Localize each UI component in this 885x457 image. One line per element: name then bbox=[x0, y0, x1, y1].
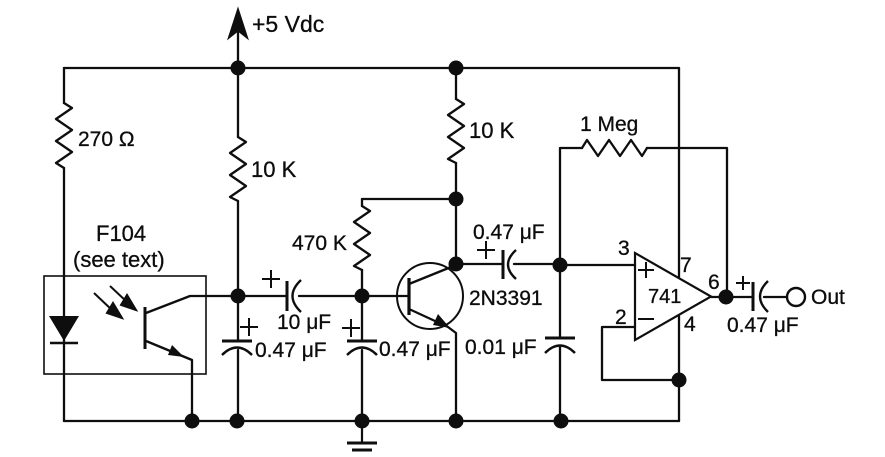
svg-text:270 Ω: 270 Ω bbox=[78, 128, 135, 151]
svg-text:3: 3 bbox=[618, 237, 630, 260]
wire 0.01uF top lead bbox=[559, 265, 561, 338]
resistor R 1Meg bbox=[582, 140, 647, 156]
wire pin6 output bbox=[711, 296, 753, 298]
svg-text:0.01 μF: 0.01 μF bbox=[465, 336, 537, 359]
node dot collector junction bbox=[449, 257, 464, 272]
op-amp plus input symbol bbox=[638, 262, 654, 278]
node dot cap1 rail bbox=[230, 414, 245, 429]
wire node1 to 10uF cap bbox=[238, 295, 287, 297]
capacitor C1 10uF plates bbox=[287, 280, 301, 312]
output terminal circle bbox=[787, 288, 805, 306]
op-amp U1 741 triangle bbox=[635, 253, 711, 340]
svg-text:+5 Vdc: +5 Vdc bbox=[252, 11, 324, 37]
wire right vertical pin4 to ground rail bbox=[678, 316, 680, 421]
svg-text:0.47 μF: 0.47 μF bbox=[727, 314, 799, 337]
wire left rail lower bbox=[63, 168, 65, 421]
svg-text:F104: F104 bbox=[96, 221, 146, 246]
wire 2N3391 collector bbox=[409, 265, 456, 284]
wire 10K-right bottom lead bbox=[455, 163, 457, 264]
wire +5Vdc stem bbox=[237, 30, 239, 68]
svg-text:10 K: 10 K bbox=[469, 118, 515, 143]
svg-text:7: 7 bbox=[680, 254, 692, 277]
capacitor C4 0.47uF coupling plates bbox=[503, 250, 516, 279]
F104 box bbox=[44, 276, 206, 374]
wire 0.01uF bottom lead bbox=[559, 347, 561, 421]
svg-text:0.47 μF: 0.47 μF bbox=[473, 221, 545, 244]
svg-text:10 K: 10 K bbox=[251, 157, 297, 182]
capacitor C3 0.47uF (middle shunt) plates bbox=[347, 341, 377, 355]
wire F104 emitter to bottom rail bbox=[146, 341, 192, 421]
wire node3 to pin3 bbox=[560, 264, 635, 266]
node dot node1 bbox=[231, 289, 246, 304]
plus sign C1 bbox=[262, 270, 280, 288]
wire cap2 bottom lead bbox=[361, 350, 363, 421]
wire 1Meg left leg bbox=[560, 148, 582, 265]
wire collector node to coupling cap bbox=[456, 263, 503, 265]
node dot emitter 2N3391 rail bbox=[449, 414, 464, 429]
node dot 0.01uF rail bbox=[554, 414, 569, 429]
wire 10K-left top lead bbox=[237, 68, 239, 137]
node dot output pin6 bbox=[719, 290, 734, 305]
wire cap1 top lead bbox=[237, 296, 239, 341]
capacitor C5 0.01uF plates bbox=[545, 338, 575, 353]
capacitor C2 0.47uF (left shunt) plates bbox=[222, 341, 252, 355]
+5Vdc arrow head bbox=[228, 8, 248, 39]
svg-text:2N3391: 2N3391 bbox=[469, 287, 543, 310]
wire pin2 loop bbox=[602, 327, 679, 380]
wire bottom rail bbox=[64, 420, 679, 422]
svg-text:1 Meg: 1 Meg bbox=[580, 113, 638, 136]
wire 10K-left bottom lead bbox=[237, 201, 239, 296]
svg-text:470 K: 470 K bbox=[292, 232, 347, 255]
node dot node3 pin3 bbox=[553, 258, 568, 273]
wire right vertical pin7 supply bbox=[678, 68, 680, 277]
resistor R 10K right bbox=[448, 99, 464, 163]
svg-text:10 μF: 10 μF bbox=[277, 311, 331, 334]
node dot +5V tap bbox=[231, 61, 246, 76]
wire 10K-right top lead bbox=[455, 68, 457, 99]
plus sign C4 bbox=[477, 241, 495, 259]
node dot node2 base bbox=[355, 289, 370, 304]
wire 470K top to collector line bbox=[362, 198, 456, 200]
svg-text:6: 6 bbox=[708, 271, 720, 294]
wire left rail upper bbox=[63, 68, 65, 103]
wire node2 to transistor base bbox=[362, 295, 409, 297]
plus sign C6 bbox=[736, 276, 750, 290]
wire 470K top lead bbox=[361, 199, 363, 206]
node dot emitter F104 rail bbox=[185, 414, 200, 429]
phototransistor emitter arrowhead F104 bbox=[168, 345, 184, 357]
node dot 10K-right top bbox=[449, 61, 464, 76]
wire cap2 top lead bbox=[361, 296, 363, 341]
wire 10uF cap to node2 bbox=[299, 295, 362, 297]
plus sign C2 bbox=[240, 318, 258, 336]
wire output cap to terminal bbox=[764, 296, 787, 298]
wire 2N3391 emitter to bottom rail bbox=[409, 309, 456, 421]
resistor R 10K left bbox=[230, 137, 246, 201]
wire 470K bottom lead bbox=[361, 270, 363, 296]
phototransistor base bar F104 bbox=[144, 307, 147, 349]
node dot pin2-pin4 junction bbox=[672, 373, 687, 388]
op-amp minus input symbol bbox=[638, 318, 654, 320]
capacitor C6 0.47uF output plates bbox=[753, 281, 768, 312]
svg-text:741: 741 bbox=[648, 286, 681, 308]
transistor Q1 2N3391 circle bbox=[397, 263, 463, 329]
transistor Q1 emitter arrowhead bbox=[433, 314, 450, 328]
svg-text:0.47 μF: 0.47 μF bbox=[255, 339, 327, 362]
wire top rail bbox=[64, 67, 679, 69]
svg-text:2: 2 bbox=[615, 306, 627, 329]
wire coupling cap to node3 bbox=[514, 263, 560, 265]
wire F104 collector to node1 bbox=[146, 296, 238, 313]
svg-text:0.47 μF: 0.47 μF bbox=[379, 338, 451, 361]
ground symbol bbox=[347, 421, 377, 450]
resistor R 270 ohm bbox=[56, 103, 72, 168]
svg-text:Out: Out bbox=[811, 286, 845, 309]
node dot ground rail bbox=[355, 414, 370, 429]
resistor R 470K bbox=[354, 206, 370, 270]
plus sign C3 bbox=[342, 319, 360, 337]
wire cap1 bottom lead bbox=[237, 350, 239, 421]
svg-text:4: 4 bbox=[684, 313, 696, 336]
light arrow 1 bbox=[94, 293, 122, 318]
LED diode F104 bbox=[49, 316, 79, 341]
node dot 470K top junction bbox=[449, 192, 464, 207]
light arrow 2 bbox=[110, 286, 136, 310]
transistor Q1 base bar bbox=[407, 278, 410, 315]
svg-text:(see text): (see text) bbox=[73, 247, 165, 272]
wire 1Meg right leg bbox=[647, 148, 727, 297]
